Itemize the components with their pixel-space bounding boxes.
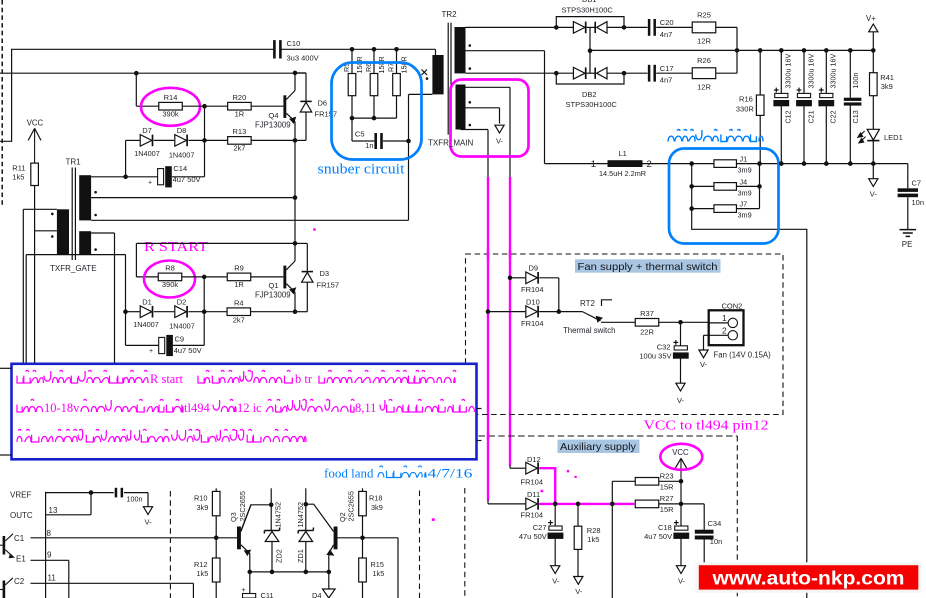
wire R25 to bus xyxy=(716,27,737,50)
svg-text:R6: R6 xyxy=(364,63,373,72)
svg-text:1: 1 xyxy=(591,159,596,170)
svg-text:1N4752: 1N4752 xyxy=(296,502,305,528)
wire bus to TR2 primary top xyxy=(435,49,437,55)
label C2 pin11 xyxy=(14,573,56,586)
svg-text:4u7 50V: 4u7 50V xyxy=(174,346,202,355)
power V- C32 xyxy=(676,383,685,405)
svg-text:C18: C18 xyxy=(658,523,672,532)
diode pack DB1 xyxy=(554,17,626,51)
section fan supply title xyxy=(575,259,721,273)
wire TR2 sec bottom to DB2 xyxy=(466,72,557,74)
svg-text:3300u 16V: 3300u 16V xyxy=(829,54,838,89)
wire TR2 aux top pin xyxy=(466,87,511,177)
svg-text:3k9: 3k9 xyxy=(371,503,383,512)
svg-text:8: 8 xyxy=(47,529,52,538)
svg-text:R20: R20 xyxy=(233,93,247,102)
wire TR1 pin2 xyxy=(91,197,295,199)
diode D1 xyxy=(133,298,159,329)
inductor L1 xyxy=(545,149,652,178)
svg-text:11: 11 xyxy=(48,573,57,582)
wire R14 node down to D8 node xyxy=(204,106,206,140)
wire R11 down xyxy=(34,186,36,363)
wire magenta D12 out xyxy=(539,468,555,504)
svg-text:4u7 50V: 4u7 50V xyxy=(644,532,672,541)
wire top bus right of C10 xyxy=(281,48,436,50)
svg-text:C22: C22 xyxy=(829,110,838,123)
wire R27 out xyxy=(659,502,684,507)
svg-text:1: 1 xyxy=(722,313,727,323)
power VCC top-left xyxy=(27,119,44,164)
diode D4 xyxy=(312,572,335,598)
stray magenta dot2 xyxy=(313,228,316,230)
svg-text:DB2: DB2 xyxy=(582,90,597,99)
svg-text:FR104: FR104 xyxy=(521,511,544,520)
resistor R23 xyxy=(635,472,674,492)
annotation thai line3 xyxy=(17,429,306,442)
svg-text:1R: 1R xyxy=(234,280,244,289)
wire R8 to R9 xyxy=(182,275,227,280)
label C1 pin8 xyxy=(14,529,52,543)
wire VCC node to C18 xyxy=(680,481,682,526)
svg-text:4u7 50V: 4u7 50V xyxy=(173,175,201,184)
transformer TR2 name xyxy=(428,139,474,148)
transformer TR2 core xyxy=(448,23,451,135)
wire pin9 xyxy=(31,560,69,598)
wire TR2 sec centre tap xyxy=(466,51,545,164)
zener ZD2 xyxy=(264,502,283,572)
svg-text:LED1: LED1 xyxy=(884,133,903,142)
svg-text:1n: 1n xyxy=(365,141,373,150)
label OUTC xyxy=(10,511,33,520)
svg-text:ZD2: ZD2 xyxy=(275,549,284,563)
capacitor 100n vref xyxy=(115,488,148,508)
resistor R6 150R snubber xyxy=(364,47,386,118)
svg-text:R start: R start xyxy=(150,372,184,386)
svg-text:J7: J7 xyxy=(740,200,748,209)
annotation snubber box xyxy=(332,63,422,160)
svg-text:R23: R23 xyxy=(660,472,674,481)
svg-text:V-: V- xyxy=(678,576,686,585)
svg-text:D4: D4 xyxy=(312,591,322,598)
svg-text:FR104: FR104 xyxy=(521,319,544,328)
svg-text:1N4007: 1N4007 xyxy=(169,150,195,159)
annotation overcurrent box xyxy=(669,149,779,244)
svg-text:R26: R26 xyxy=(697,56,711,65)
annotation snuber circuit text xyxy=(318,162,405,178)
svg-text:R18: R18 xyxy=(369,494,382,503)
capacitor C11 xyxy=(241,572,273,598)
capacitor C13 100n xyxy=(844,50,862,163)
wire R23 out xyxy=(659,479,684,484)
wire D7 anode feed xyxy=(123,140,139,179)
wire J1 out xyxy=(737,161,782,166)
svg-text:12 ic: 12 ic xyxy=(237,401,262,415)
section driver dashed left xyxy=(169,491,171,598)
annotation magenta box TXFR_MAIN xyxy=(451,80,529,157)
wire R9 to Q1 base xyxy=(251,276,284,278)
svg-text:snuber circuit: snuber circuit xyxy=(318,162,405,178)
svg-text:1k5: 1k5 xyxy=(587,535,599,544)
transformer TR1 name xyxy=(50,264,97,273)
svg-text:L1: L1 xyxy=(619,149,627,158)
transistor Q3 xyxy=(229,491,271,572)
svg-text:R37: R37 xyxy=(640,309,654,318)
svg-text:C7: C7 xyxy=(912,179,922,188)
transistor Q4 xyxy=(255,73,295,140)
svg-text:RT2: RT2 xyxy=(580,299,596,308)
svg-text:FJP13009: FJP13009 xyxy=(255,120,291,129)
svg-text:VCC to tl494 pin12: VCC to tl494 pin12 xyxy=(644,419,769,434)
wire magenta aux rail xyxy=(539,502,634,507)
svg-text:390k: 390k xyxy=(162,110,179,119)
resistor R8 xyxy=(158,264,182,290)
svg-text:D1: D1 xyxy=(142,298,152,307)
svg-text:15R: 15R xyxy=(660,483,674,492)
svg-text:150R: 150R xyxy=(377,56,386,73)
resistor J7 xyxy=(692,200,760,220)
svg-text:V-: V- xyxy=(870,190,878,199)
svg-text:www.auto-nkp.com: www.auto-nkp.com xyxy=(711,568,904,589)
svg-text:D7: D7 xyxy=(142,126,152,135)
resistor R9 xyxy=(227,264,251,290)
resistor R5 150R snubber xyxy=(342,47,364,118)
svg-text:C12: C12 xyxy=(784,110,793,123)
svg-text:1R: 1R xyxy=(235,110,245,119)
svg-text:12R: 12R xyxy=(697,37,711,46)
svg-text:3m9: 3m9 xyxy=(738,188,752,197)
svg-text:R7: R7 xyxy=(387,63,396,72)
svg-text:+: + xyxy=(241,585,245,594)
diode pack DB2 label xyxy=(566,90,618,109)
svg-text:R41: R41 xyxy=(880,73,894,82)
power V- C18 xyxy=(676,566,685,586)
annotation VCC to tl494 xyxy=(644,419,769,434)
svg-text:100u 35V: 100u 35V xyxy=(639,351,671,360)
wire D12 lead xyxy=(510,465,525,468)
svg-text:E1: E1 xyxy=(16,555,26,564)
transistor C1 E1 stub xyxy=(0,534,14,558)
svg-text:V-: V- xyxy=(575,587,583,596)
node D10 tap xyxy=(486,309,491,314)
svg-text:1k5: 1k5 xyxy=(197,569,209,578)
wire ZD2 stub up xyxy=(270,488,272,505)
svg-text:R13: R13 xyxy=(233,127,247,136)
diode D9 xyxy=(510,264,559,295)
node C5 to TR2 return xyxy=(406,139,411,144)
wire L1 to J block xyxy=(643,161,715,166)
power V- vref xyxy=(143,507,152,527)
svg-text:C21: C21 xyxy=(806,110,815,123)
annotation magenta ellipse around VCC xyxy=(660,444,702,470)
wire top bus from left corner xyxy=(0,49,274,141)
svg-text:14.5uH 2.2mR: 14.5uH 2.2mR xyxy=(599,169,646,178)
capacitor C9 xyxy=(126,312,205,356)
resistor R14 xyxy=(159,93,183,119)
left dashed border xyxy=(1,0,3,206)
capacitor C7 xyxy=(898,164,924,230)
banner auto-nkp xyxy=(696,562,922,593)
wire magenta rail overlay crossings xyxy=(488,250,510,440)
svg-text:J4: J4 xyxy=(740,177,748,186)
power VCC aux xyxy=(672,448,689,481)
capacitor C18 xyxy=(644,520,689,566)
svg-text:1k5: 1k5 xyxy=(373,569,385,578)
power V+ xyxy=(866,14,878,51)
annotation magenta ellipse around R8 xyxy=(144,261,195,298)
transistor C2 stub xyxy=(0,578,13,598)
stray magenta dot xyxy=(432,518,435,521)
svg-text:TXFR_MAIN: TXFR_MAIN xyxy=(428,139,474,148)
resistor R18 xyxy=(359,488,383,538)
svg-text:TR2: TR2 xyxy=(442,10,458,19)
svg-text:Q3: Q3 xyxy=(229,512,238,522)
wire D8 to junction xyxy=(188,139,204,141)
diode D2 xyxy=(169,298,195,331)
svg-text:PE: PE xyxy=(902,240,913,249)
diode pack DB1 label xyxy=(562,0,614,14)
wire R14 feed xyxy=(136,73,158,106)
diode D6 xyxy=(295,73,337,140)
capacitor C10 xyxy=(273,39,319,62)
svg-text:FR157: FR157 xyxy=(315,110,338,119)
svg-text:2SC2655: 2SC2655 xyxy=(238,491,247,521)
svg-text:3300u 16V: 3300u 16V xyxy=(784,54,793,89)
svg-text:FJP13009: FJP13009 xyxy=(255,291,291,300)
svg-text:1N4752: 1N4752 xyxy=(274,502,283,528)
svg-text:R14: R14 xyxy=(164,93,178,102)
diode D12 xyxy=(521,455,544,487)
svg-text:V-: V- xyxy=(144,518,152,527)
svg-text:3300u 16V: 3300u 16V xyxy=(806,54,815,89)
svg-text:V+: V+ xyxy=(866,14,876,23)
wire LED1 to V- node xyxy=(872,141,874,164)
svg-text:1N4007: 1N4007 xyxy=(133,320,159,329)
svg-text:Auxiliary supply: Auxiliary supply xyxy=(560,442,637,453)
svg-text:150R: 150R xyxy=(355,56,364,73)
svg-text:V-: V- xyxy=(552,576,560,585)
wire J left rail xyxy=(689,164,694,211)
svg-text:R8: R8 xyxy=(165,264,175,273)
svg-text:13: 13 xyxy=(49,506,58,515)
svg-text:D3: D3 xyxy=(320,269,330,278)
node Q4 collector xyxy=(293,71,298,76)
svg-text:2k7: 2k7 xyxy=(233,144,245,153)
wire R13 to Q4 emitter node xyxy=(251,138,297,143)
wire TR1 bottom common xyxy=(26,255,125,363)
node Q1 emitter xyxy=(293,309,298,314)
svg-text:R16: R16 xyxy=(739,95,753,104)
resistor R10 xyxy=(194,488,220,538)
wire TR2 aux centre to V- xyxy=(466,108,500,124)
svg-text:D6: D6 xyxy=(318,98,328,107)
svg-text:9: 9 xyxy=(47,550,52,559)
svg-text:390k: 390k xyxy=(162,280,179,289)
LED1 xyxy=(858,129,903,143)
section driver dashed right xyxy=(464,488,466,598)
wire R14 to R20 xyxy=(182,104,228,109)
resistor R11 xyxy=(12,163,38,185)
svg-text:R27: R27 xyxy=(660,494,674,503)
annotation food land note xyxy=(324,466,473,481)
svg-text:D9: D9 xyxy=(529,264,539,273)
capacitor C5 xyxy=(352,118,409,150)
wire TR1 pin3 to snubber xyxy=(91,219,408,221)
svg-text:2k7: 2k7 xyxy=(233,315,245,324)
wire pin13 xyxy=(46,493,91,515)
wire tl494 left rail xyxy=(45,492,47,598)
wire TR2 aux bottom pin xyxy=(461,130,489,178)
svg-text:Fan (14V 0.15A): Fan (14V 0.15A) xyxy=(714,351,772,360)
TR1 polarity dot lower xyxy=(94,248,97,251)
svg-text:C1: C1 xyxy=(14,534,25,543)
svg-text:ZD1: ZD1 xyxy=(296,549,305,563)
label fan rating xyxy=(714,351,772,360)
svg-text:2: 2 xyxy=(722,325,727,335)
node D9 tap xyxy=(508,276,513,281)
transformer TR1 core xyxy=(72,168,75,261)
svg-text:R10: R10 xyxy=(194,494,207,503)
node Q3 base xyxy=(214,536,219,541)
wire TR1 lower top pin xyxy=(91,233,114,363)
TR2 primary polarity x-mark xyxy=(422,70,429,80)
capacitor C34 xyxy=(681,504,722,564)
wire R start rail xyxy=(136,241,297,277)
svg-text:4n7: 4n7 xyxy=(660,30,673,39)
svg-text:STPS30H100C: STPS30H100C xyxy=(562,5,614,14)
transformer TR1 gate winding xyxy=(57,209,69,254)
svg-text:3m9: 3m9 xyxy=(738,166,752,175)
section aux supply box xyxy=(479,436,738,598)
svg-text:150R: 150R xyxy=(399,56,408,73)
node bus B junction xyxy=(134,71,139,76)
resistor R16 xyxy=(736,50,764,163)
stray magenta dots aux xyxy=(567,470,577,478)
wire J right rail xyxy=(759,164,761,209)
section driver dashed mid xyxy=(419,491,421,598)
resistor R41 xyxy=(870,50,894,129)
svg-text:CON2: CON2 xyxy=(722,301,743,310)
wire snubber common xyxy=(350,116,397,121)
svg-text:food land: food land xyxy=(324,466,374,481)
annotation thai line1 xyxy=(17,370,456,386)
wire D7 to D8 xyxy=(154,139,174,141)
svg-text:C32: C32 xyxy=(657,343,671,352)
svg-text:R12: R12 xyxy=(194,560,207,569)
wire magenta rail B xyxy=(487,177,489,500)
svg-text:+: + xyxy=(148,180,152,187)
svg-text:FR157: FR157 xyxy=(317,280,340,289)
stray magenta dot3 xyxy=(541,490,544,492)
wire TR2 sec top to DB1 xyxy=(466,26,557,28)
transformer TR2 label xyxy=(442,10,458,19)
resistor R13 xyxy=(205,127,252,153)
resistor J4 xyxy=(692,177,762,197)
wire TR1 gate mid pin xyxy=(35,230,57,232)
wire TR1 top pin to C14 xyxy=(91,176,126,178)
svg-text:R28: R28 xyxy=(587,526,601,535)
label E1 pin9 xyxy=(16,550,52,563)
annotation R START xyxy=(144,239,209,254)
svg-text:C34: C34 xyxy=(708,519,722,528)
capacitor C27 xyxy=(519,504,564,566)
svg-text:C10: C10 xyxy=(287,39,301,48)
svg-text:+: + xyxy=(149,348,153,355)
svg-text:22R: 22R xyxy=(640,328,654,337)
wire pin8 to Q3 base xyxy=(31,537,238,539)
svg-text:J1: J1 xyxy=(740,155,748,164)
resistor R20 xyxy=(228,93,252,119)
resistor R26 xyxy=(692,56,716,91)
svg-text:12R: 12R xyxy=(697,82,711,91)
TR1 gate polarity dots xyxy=(51,213,54,238)
section fan supply box xyxy=(466,254,784,415)
annotation blue explanation box xyxy=(0,364,482,460)
svg-text:1N4007: 1N4007 xyxy=(169,321,195,330)
diode D8 xyxy=(169,126,195,159)
svg-text:R START: R START xyxy=(144,239,209,254)
svg-text:3k9: 3k9 xyxy=(881,82,893,91)
svg-text:C13: C13 xyxy=(851,110,860,123)
svg-text:3m9: 3m9 xyxy=(738,211,752,220)
svg-text:R4: R4 xyxy=(234,299,244,308)
svg-text:Q1: Q1 xyxy=(268,281,278,290)
svg-text:8,11: 8,11 xyxy=(355,401,376,415)
svg-text:C11: C11 xyxy=(261,591,274,598)
resistor R25 xyxy=(692,10,716,45)
capacitor C20 xyxy=(624,18,692,39)
svg-text:10n: 10n xyxy=(710,537,723,546)
wire R4 to Q1 node xyxy=(251,311,296,313)
transformer TR2 secondary winding xyxy=(455,27,466,73)
power V- C27 xyxy=(551,566,560,586)
resistor R27 xyxy=(635,494,674,514)
svg-text:2: 2 xyxy=(647,159,652,170)
wire snubber to TR2 primary bottom xyxy=(409,94,433,220)
svg-text:C27: C27 xyxy=(533,523,547,532)
svg-text:4n7: 4n7 xyxy=(660,76,673,85)
power V- TR2 aux xyxy=(495,125,504,145)
svg-text:Thermal switch: Thermal switch xyxy=(563,326,615,335)
wire vref rail xyxy=(46,490,114,495)
svg-text:TXFR_GATE: TXFR_GATE xyxy=(50,264,97,273)
wire D2 to node xyxy=(188,311,204,313)
transformer TR2 aux winding xyxy=(456,85,466,130)
transformer TR2 primary winding xyxy=(432,55,443,94)
svg-text:VREF: VREF xyxy=(10,491,31,500)
svg-text:1N4007: 1N4007 xyxy=(134,149,160,158)
resistor R4 xyxy=(204,299,250,325)
capacitor C32 xyxy=(639,322,688,383)
svg-text:C2: C2 xyxy=(14,577,25,586)
svg-text:10n: 10n xyxy=(912,198,925,207)
wire TR1 gate top pin xyxy=(23,209,57,362)
svg-text:D2: D2 xyxy=(177,298,187,307)
ground PE xyxy=(900,230,917,249)
svg-text:C17: C17 xyxy=(660,64,674,73)
wire Q2 base down xyxy=(397,538,399,598)
svg-text:3k9: 3k9 xyxy=(197,503,209,512)
svg-text:15R: 15R xyxy=(660,505,674,514)
svg-text:Fan supply + thermal switch: Fan supply + thermal switch xyxy=(578,262,718,273)
svg-text:TR1: TR1 xyxy=(66,158,82,167)
svg-text:V-: V- xyxy=(677,396,685,405)
diode D11 xyxy=(521,490,544,519)
wire Q4 node down TR1 pin xyxy=(294,140,296,197)
node ZD1 top xyxy=(304,502,309,507)
section aux supply title xyxy=(558,440,640,454)
diode pack DB2 xyxy=(554,48,626,84)
diode D7 xyxy=(134,126,160,158)
